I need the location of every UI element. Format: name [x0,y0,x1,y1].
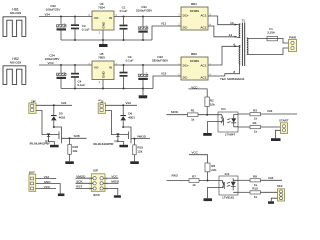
svg-text:VMOD: VMOD [76,175,86,179]
svg-text:3300uF/50V: 3300uF/50V [152,58,168,62]
svg-text:10k: 10k [210,102,215,106]
svg-text:IN: IN [109,66,112,70]
svg-text:MS-D29: MS-D29 [10,11,21,15]
svg-text:0.1uF: 0.1uF [126,58,134,62]
svg-text:GND: GND [44,180,52,184]
svg-text:RXD: RXD [172,174,179,178]
svg-text:SCB: SCB [74,134,80,138]
svg-text:1k: 1k [192,183,196,187]
svg-text:MOSI: MOSI [111,180,119,184]
svg-text:100uF/35V: 100uF/35V [45,57,60,61]
svg-text:BR2: BR2 [191,52,197,56]
svg-text:AC1: AC1 [201,63,207,67]
svg-text:LTV8161: LTV8161 [222,196,234,200]
svg-text:10: 10 [230,21,234,25]
svg-text:MOD: MOD [171,110,179,114]
svg-text:DC+: DC+ [183,13,189,17]
svg-text:0.1uF: 0.1uF [120,9,128,13]
svg-text:VCC: VCC [192,151,199,155]
svg-text:7805: 7805 [98,55,105,59]
svg-text:VMOD: VMOD [137,134,147,138]
svg-text:DC+: DC+ [183,63,189,67]
svg-text:R3: R3 [253,108,257,112]
svg-text:Q2: Q2 [114,139,118,143]
svg-text:GND: GND [102,21,106,29]
svg-text:R4: R4 [253,121,257,125]
svg-text:1k: 1k [254,130,258,134]
svg-text:DC-: DC- [183,26,188,30]
svg-text:14: 14 [229,33,233,37]
svg-text:SK2: SK2 [277,184,283,188]
svg-text:T1: T1 [241,18,245,22]
svg-text:V24: V24 [61,101,67,105]
svg-text:IC2: IC2 [225,172,230,176]
svg-text:V24: V24 [45,12,51,16]
svg-text:0.1uF: 0.1uF [82,27,90,31]
svg-text:VCC: VCC [111,175,118,179]
svg-text:IRLML6402PBF: IRLML6402PBF [93,142,114,146]
svg-text:7824: 7824 [98,5,105,9]
svg-text:2200uF/35V: 2200uF/35V [136,9,152,13]
svg-text:R7: R7 [192,174,196,178]
svg-text:10k: 10k [72,149,77,153]
svg-text:AC2: AC2 [201,76,207,80]
svg-text:R9: R9 [253,174,257,178]
svg-text:12k: 12k [137,150,142,154]
svg-text:IRLML6402PBF: IRLML6402PBF [30,142,51,146]
svg-text:V24: V24 [268,176,274,180]
svg-text:V24: V24 [267,109,273,113]
svg-text:VCC: VCC [44,185,51,189]
svg-text:R1: R1 [191,109,195,113]
svg-text:DF06S: DF06S [190,59,199,63]
svg-text:4001: 4001 [128,116,135,120]
svg-text:DF06S: DF06S [190,9,199,13]
svg-text:V12: V12 [44,175,50,179]
svg-text:PWR: PWR [289,36,297,40]
svg-text:3,15A: 3,15A [267,31,275,35]
svg-text:VCC: VCC [48,61,55,65]
svg-text:V12: V12 [161,21,167,25]
svg-text:VO: VO [94,66,99,70]
svg-text:4001: 4001 [59,116,66,120]
svg-text:V15: V15 [161,71,167,75]
svg-text:VO: VO [94,16,99,20]
svg-text:LTV847: LTV847 [225,133,236,137]
svg-text:IN: IN [109,16,112,20]
svg-text:GND: GND [102,71,106,79]
svg-text:ISP: ISP [93,169,98,173]
svg-text:MS-D29: MS-D29 [10,61,21,65]
svg-text:AC1: AC1 [201,13,207,17]
svg-text:IC1: IC1 [221,107,226,111]
svg-text:TEC SD0543A011: TEC SD0543A011 [220,77,245,81]
svg-text:1k: 1k [254,117,258,121]
svg-text:BR1: BR1 [191,2,197,6]
svg-text:SCK: SCK [76,180,82,184]
svg-text:V24: V24 [126,101,132,105]
svg-text:DC-: DC- [183,76,188,80]
svg-text:220: 220 [211,168,216,172]
svg-text:R10: R10 [252,187,258,191]
svg-text:100uF/25V: 100uF/25V [46,8,61,12]
svg-text:1k: 1k [191,118,195,122]
svg-text:START: START [279,118,289,122]
svg-text:AC2: AC2 [201,26,207,30]
svg-text:1k: 1k [254,195,258,199]
svg-text:IDC6: IDC6 [93,193,100,197]
svg-text:0.1uF: 0.1uF [78,83,86,87]
svg-text:RST: RST [76,185,82,189]
